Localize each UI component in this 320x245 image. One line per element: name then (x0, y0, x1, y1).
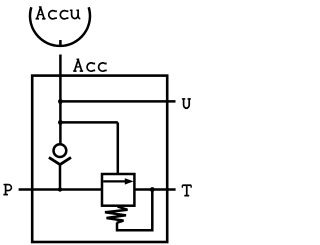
wire accumulator line down (59, 55, 62, 145)
node junction P (58, 187, 62, 191)
wire pilot horizontal (60, 121, 117, 124)
enclosure box (32, 76, 167, 242)
label Accu (36, 7, 81, 19)
accumulator port stub (59, 40, 62, 47)
wire check valve to P line (59, 165, 62, 190)
label T (182, 185, 191, 195)
relief valve RV1 flow arrow (103, 180, 126, 182)
relief valve RV1 body (102, 174, 134, 206)
relief valve RV1 spring (105, 207, 128, 223)
label Acc (73, 59, 106, 71)
check valve V1 seat (49, 157, 71, 164)
wire T line (134, 188, 175, 191)
node junction T (150, 187, 155, 192)
wire U line (60, 100, 175, 103)
label U (182, 99, 191, 108)
wire drain loop (117, 190, 152, 231)
wire P line (19, 188, 102, 191)
label P (3, 185, 11, 195)
wire pilot vertical (117, 122, 120, 174)
accumulator ACC1 bowl (30, 7, 90, 46)
check valve V1 ball (54, 144, 67, 157)
node junction U (58, 99, 63, 104)
node junction pilot (58, 120, 63, 125)
